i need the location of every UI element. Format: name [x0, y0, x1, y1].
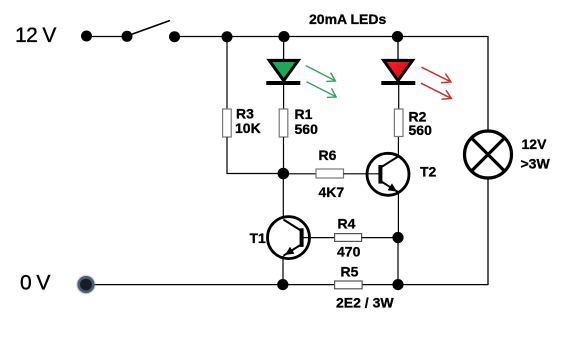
node dot5 (green LED branch): [278, 31, 289, 42]
svg-text:12V: 12V: [522, 136, 548, 152]
wire T1 emitter down to bottom rail: [282, 256, 284, 285]
LED D1 cathode bar: [266, 81, 300, 85]
svg-text:470: 470: [337, 244, 361, 260]
wire T2 collector up to R2: [397, 137, 399, 157]
wire T2 emitter down to R4 node: [397, 192, 399, 238]
wire top rail dot3 to right corner: [174, 36, 489, 38]
terminal 0V: [76, 275, 96, 295]
node R4 right: [392, 232, 403, 243]
LED D2 cathode bar: [381, 81, 415, 85]
switch S1 arm: [127, 21, 170, 37]
svg-text:4K7: 4K7: [319, 184, 345, 200]
wire R6 to T2 base: [344, 173, 380, 175]
resistor R2: [394, 109, 403, 137]
wire R3 bottom L to node: [227, 137, 283, 174]
LED D1 green triangle: [269, 60, 298, 80]
node dot1: [81, 31, 92, 42]
resistor R6: [316, 169, 344, 178]
resistor R4: [335, 234, 362, 242]
wire red LED cathode to R2: [398, 84, 400, 110]
resistor R1: [279, 109, 288, 137]
node R6 junction: [278, 168, 290, 180]
red light arrow 1: [422, 67, 451, 83]
svg-text:2E2 / 3W: 2E2 / 3W: [336, 294, 394, 310]
svg-text:R1: R1: [295, 106, 313, 122]
transistor T2 (NPN, base left): [367, 153, 409, 195]
svg-text:R4: R4: [338, 215, 356, 231]
wire T1 collector from node down: [282, 174, 284, 219]
wire bottom rail: [86, 284, 488, 286]
wire green LED cathode to R1: [283, 84, 285, 110]
wire T1 base to R4: [303, 237, 335, 239]
node dot4 (R3 branch): [222, 31, 233, 42]
wire R4 to node: [362, 237, 398, 239]
node dot2 (switch pole): [122, 31, 133, 42]
green light arrow 2: [307, 82, 337, 98]
svg-text:R5: R5: [341, 264, 359, 280]
svg-text:12 V: 12 V: [15, 24, 56, 47]
wire node R4 down to node R5: [397, 238, 399, 286]
node dot3 (switch throw): [169, 31, 180, 42]
wire right rail upper (corner to lamp top): [487, 37, 489, 132]
node R5 right: [392, 279, 403, 290]
wire right rail lower (lamp bottom to bottom rail): [487, 178, 489, 285]
resistor R3: [223, 109, 232, 137]
svg-text:560: 560: [295, 121, 319, 137]
svg-text:T1: T1: [250, 230, 267, 246]
LED D2 red triangle: [384, 60, 413, 80]
svg-text:0 V: 0 V: [20, 272, 50, 295]
svg-text:R6: R6: [319, 147, 337, 163]
lamp LP1: [465, 131, 512, 178]
resistor R5: [335, 281, 363, 289]
svg-text:>3W: >3W: [521, 156, 551, 172]
node dot6 (red LED branch): [392, 31, 403, 42]
green light arrow 1: [306, 66, 336, 82]
wire green LED anode: [283, 37, 285, 62]
node T1 emitter on bottom rail: [277, 279, 288, 290]
transistor T1 (NPN, base right, mirrored): [268, 217, 310, 259]
red light arrow 2: [421, 83, 451, 99]
wire top rail segment dot1-dot2: [86, 36, 127, 38]
svg-text:T2: T2: [420, 164, 437, 180]
wire red LED anode: [397, 37, 399, 62]
wire R3 branch vertical top: [226, 37, 228, 111]
svg-text:10K: 10K: [235, 120, 261, 136]
svg-text:20mA LEDs: 20mA LEDs: [309, 11, 387, 27]
wire node to R6: [283, 173, 316, 175]
wire R1 bottom to node: [283, 137, 285, 174]
svg-text:560: 560: [409, 122, 433, 138]
